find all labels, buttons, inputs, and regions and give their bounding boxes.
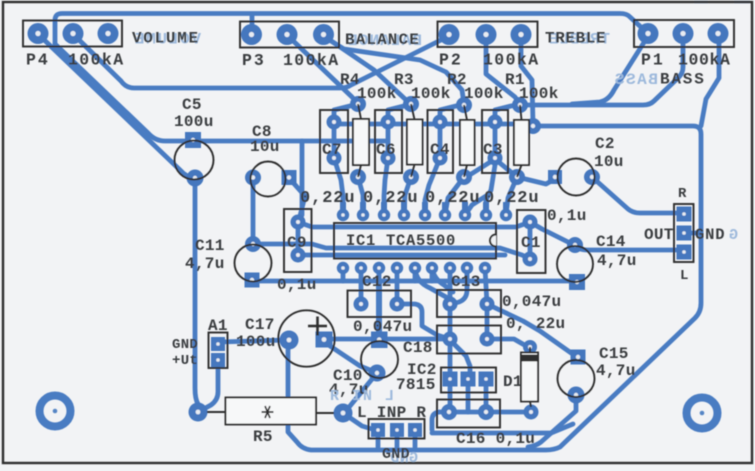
wire C16 right to D1 bottom xyxy=(486,410,531,415)
capacitor C12 pads xyxy=(354,297,405,312)
potentiometer P2 outline xyxy=(438,22,538,48)
wire C12 columns xyxy=(359,268,364,304)
svg-text:C13: C13 xyxy=(451,273,481,291)
connector OUT outline xyxy=(674,204,694,262)
wire maze R2 bottom to IC1 pin xyxy=(445,177,464,215)
resistor top pads R4 R3 R2 R1 xyxy=(350,96,541,134)
wire branch down to C9 top xyxy=(298,141,302,222)
wire C16 left corner down xyxy=(432,412,449,430)
svg-text:BALANCE: BALANCE xyxy=(345,31,420,49)
wire C13-C18 verticals xyxy=(448,304,453,339)
wire C10 pad vertical from C12 xyxy=(376,281,382,338)
capacitor C16 outline xyxy=(437,400,500,428)
capacitor C9 outline xyxy=(284,209,312,272)
svg-text:100k: 100k xyxy=(519,85,559,103)
capacitor C13 outline xyxy=(437,290,501,317)
capacitor C12 outline xyxy=(348,291,412,318)
op-amp IC1 bottom pin pads xyxy=(337,262,491,274)
resistor bottom pads xyxy=(350,169,525,185)
capacitor C9 pads xyxy=(291,215,306,263)
resistor R5 pads xyxy=(189,403,353,423)
wire top-bus leg through P4 down to y141 rail to C9 xyxy=(55,44,386,141)
wire C11 top rail through IC1 to C1 lower pad xyxy=(253,244,530,259)
svg-text:0, 22u: 0, 22u xyxy=(506,315,565,333)
svg-text:C9: C9 xyxy=(287,234,307,252)
wire C15 bottom to bottom rail xyxy=(528,395,576,447)
wire C9 top to C1 top rail xyxy=(298,222,530,227)
svg-text:GND: GND xyxy=(382,446,410,463)
capacitor C15 pads xyxy=(568,350,586,404)
svg-text:0,22u: 0,22u xyxy=(363,189,419,208)
svg-text:C16 0,1u: C16 0,1u xyxy=(456,430,535,448)
svg-text:IC1 TCA5500: IC1 TCA5500 xyxy=(346,232,456,250)
wire maze C3 bottom twin stubs xyxy=(465,196,486,215)
label BASS with mirrored print-through xyxy=(613,71,705,90)
wire branch to P1 pad3 xyxy=(701,35,719,126)
svg-text:100k: 100k xyxy=(464,85,504,103)
capacitor C6 pads xyxy=(381,115,396,166)
capacitor C14 pads xyxy=(567,237,585,290)
resistor R1 body xyxy=(514,105,529,177)
connector A1 outline xyxy=(209,333,228,369)
svg-text:C14: C14 xyxy=(596,233,626,251)
potentiometer P1 pads xyxy=(638,23,729,44)
svg-text:OUT: OUT xyxy=(644,226,674,244)
wire maze stubs below IC1 xyxy=(341,268,346,281)
svg-text:C2: C2 xyxy=(595,135,615,153)
label GND right of OUT with mirror echo xyxy=(695,226,738,244)
wire C16 pad-to-pad xyxy=(449,410,486,415)
svg-text:C5: C5 xyxy=(182,96,202,114)
connector INP outline xyxy=(369,419,425,439)
capacitor C18 outline xyxy=(437,326,501,354)
label TREBLE xyxy=(545,30,610,49)
wire maze cap C6 bottom to IC1 pin xyxy=(384,158,388,215)
svg-text:C15: C15 xyxy=(599,345,629,363)
wire INP stubs xyxy=(395,430,400,448)
capacitor C3 pads xyxy=(488,115,503,166)
wire bus through cap top pads xyxy=(334,122,530,127)
potentiometer P3 outline xyxy=(240,22,339,48)
wire C3 bottom to R2 bottom xyxy=(468,159,495,176)
resistor R3 body xyxy=(407,104,423,177)
wire R5 right pad to INP L xyxy=(343,413,372,429)
svg-text:G: G xyxy=(729,227,738,244)
wire C3 bottom to R1 bottom and C2 minus xyxy=(495,159,553,184)
label GND under INP with mirrored print-through xyxy=(382,446,418,467)
wire C8 left pad to C11 plus pad xyxy=(251,178,256,244)
capacitor C13 pads xyxy=(443,297,495,312)
svg-text:0,1u: 0,1u xyxy=(277,276,317,294)
svg-text:A1: A1 xyxy=(208,317,228,335)
wire C10 bottom diag to R5 right pad xyxy=(343,373,377,413)
capacitor C5 outline xyxy=(175,141,214,180)
wire cap tops to resistor tops xyxy=(334,105,358,122)
wire bottom rail y433 xyxy=(432,424,573,433)
wire C14 top to OUT L xyxy=(575,245,680,250)
capacitor C6 outline xyxy=(375,110,402,173)
wire C8 right pad diagonal to C9 top xyxy=(289,178,305,220)
wire maze diagonals around IC2 xyxy=(452,342,470,374)
svg-text:100kA: 100kA xyxy=(678,51,731,70)
wire maze R1 bottom to IC1 pin xyxy=(506,177,517,215)
resistor R5 body xyxy=(207,398,334,425)
op-amp IC1 body xyxy=(334,223,496,259)
svg-text:100k: 100k xyxy=(411,85,451,103)
svg-text:L: L xyxy=(680,268,689,284)
wire inside C9 vertical xyxy=(296,222,301,255)
mounting hole right xyxy=(687,398,718,429)
svg-text:GND: GND xyxy=(695,226,725,244)
svg-text:10u: 10u xyxy=(594,153,624,171)
svg-text:100kA: 100kA xyxy=(483,51,540,70)
op-amp IC1 top pin pads xyxy=(337,202,512,221)
wire maze R4 bottom to IC1 pin xyxy=(358,177,363,215)
svg-text:GND: GND xyxy=(172,337,198,353)
wire mid rail inside IC1 xyxy=(298,253,505,258)
wire inside C1 vertical xyxy=(528,222,533,259)
wire OUT GND to right rail xyxy=(691,231,701,236)
capacitor C11 outline xyxy=(235,245,272,282)
svg-text:L ИI Я: L ИI Я xyxy=(328,388,394,405)
wire top bus from P4 to P1 xyxy=(55,14,648,45)
svg-text:P2: P2 xyxy=(439,51,463,70)
wire P3 pad2 to R4 top pad xyxy=(287,35,358,104)
wire A1 +Ut down to R5 left pad xyxy=(200,368,218,411)
svg-text:BASS: BASS xyxy=(660,71,706,89)
connector OUT pads xyxy=(677,207,692,260)
svg-text:C18: C18 xyxy=(403,339,433,357)
svg-text:7815: 7815 xyxy=(396,376,436,394)
svg-text:0,22u: 0,22u xyxy=(425,189,481,208)
label VOLUME xyxy=(132,30,201,49)
wire C13 right to C15 top xyxy=(487,304,574,355)
svg-text:C11: C11 xyxy=(195,237,225,255)
svg-text:+Ut: +Ut xyxy=(172,353,198,369)
resistor R2 body xyxy=(460,105,475,177)
capacitor C2 pads xyxy=(548,169,600,185)
capacitor C2 outline xyxy=(558,159,595,196)
wire maze curves into C13 left pad xyxy=(415,268,450,304)
wire in-box verticals C7 C6 C4 C3 xyxy=(332,122,337,158)
wire P4 pad1 diagonal to C5 minus pad and down left rail xyxy=(38,34,198,412)
capacitor C4 pads xyxy=(433,115,448,166)
label BALANCE xyxy=(345,31,422,50)
capacitor C3 outline xyxy=(482,110,508,173)
wire trace A from R1 top pad to P1 pad2 xyxy=(520,35,683,105)
svg-text:100u: 100u xyxy=(236,333,276,351)
capacitor C7 pads xyxy=(327,115,342,166)
capacitor C8 outline xyxy=(251,162,286,197)
capacitor C16 pads xyxy=(441,404,494,420)
capacitor C11 pads xyxy=(245,236,262,288)
capacitor C5 pads xyxy=(185,132,204,187)
wire C18 right to D1 top xyxy=(487,339,528,347)
capacitor C4 outline xyxy=(428,110,454,173)
capacitor C10 bottom pad xyxy=(369,365,386,382)
wire maze cap C4 bottom to IC1 pin xyxy=(425,158,440,215)
svg-text:P4: P4 xyxy=(26,51,50,70)
wire A1 GND to C17 minus xyxy=(220,340,287,342)
regulator IC2 outline xyxy=(441,368,496,393)
svg-text:C3: C3 xyxy=(483,141,503,159)
connector INP pads xyxy=(371,423,422,437)
connector A1 pads xyxy=(211,337,225,367)
wire C17 plus rail right to C18 xyxy=(326,337,448,342)
svg-text:0,1u: 0,1u xyxy=(547,207,587,225)
svg-text:P1: P1 xyxy=(641,51,665,70)
diode D1 pads xyxy=(523,340,539,420)
capacitor C15 outline xyxy=(558,360,595,397)
svg-text:BASS: BASS xyxy=(613,71,658,89)
svg-text:C6: C6 xyxy=(376,141,396,159)
svg-text:D1: D1 xyxy=(503,373,523,391)
potentiometer P2 pads xyxy=(439,24,532,45)
svg-text:C7: C7 xyxy=(322,141,342,159)
svg-text:10u: 10u xyxy=(250,138,280,156)
svg-text:0,22u: 0,22u xyxy=(484,189,540,208)
wire P2 pad3 down to node pad xyxy=(521,35,533,124)
svg-text:C17: C17 xyxy=(245,316,275,334)
svg-text:R5: R5 xyxy=(253,428,273,446)
svg-text:100u: 100u xyxy=(174,113,214,131)
capacitor C7 outline xyxy=(320,110,348,173)
svg-text:R: R xyxy=(678,186,687,202)
svg-text:100k: 100k xyxy=(357,85,397,103)
wire bottom rail C11 minus to C14 minus xyxy=(252,281,577,282)
capacitor C17 pads xyxy=(280,331,333,350)
wire maze cap C7 bottom to IC1 pin xyxy=(334,158,343,215)
svg-text:0,047u: 0,047u xyxy=(353,318,412,336)
svg-text:VOLUME: VOLUME xyxy=(132,30,200,48)
potentiometer P4 pads xyxy=(28,23,119,44)
wire C13 columns xyxy=(448,268,453,304)
svg-text:C12: C12 xyxy=(362,273,392,291)
scan specks top right xyxy=(694,1,750,4)
capacitor C10 plus pad xyxy=(371,332,388,349)
wire C12 right pad to C18 via x422 xyxy=(397,304,450,339)
svg-text:C1: C1 xyxy=(521,234,541,252)
svg-text:P3: P3 xyxy=(242,51,266,70)
wire P2 pad2 to R1 top pad xyxy=(486,35,520,104)
svg-text:TREBLE: TREBLE xyxy=(545,30,606,48)
capacitor C1 pads xyxy=(523,215,538,267)
potentiometer P1 outline xyxy=(634,20,734,47)
capacitor C10 outline xyxy=(361,341,398,378)
diode D1 body xyxy=(521,347,538,407)
capacitor C1 outline xyxy=(517,210,546,273)
wire P3 pad3 diagonal to R3 top pad xyxy=(324,36,411,104)
potentiometer P4 outline xyxy=(23,21,122,47)
mounting hole left xyxy=(40,396,71,427)
svg-text:100kA: 100kA xyxy=(68,51,125,70)
svg-text:0,047u: 0,047u xyxy=(502,293,561,311)
wire trace B node pad right to vertical rail and big bottom diagonal xyxy=(288,126,701,450)
svg-text:0,22u: 0,22u xyxy=(300,189,356,208)
resistor R4 body xyxy=(353,104,369,177)
wire C1 top to C14 top xyxy=(530,222,575,245)
svg-text:4,7u: 4,7u xyxy=(596,362,636,380)
wire C17 plus to C10 bottom xyxy=(330,346,375,372)
svg-text:4,7u: 4,7u xyxy=(185,255,225,273)
potentiometer P3 pads xyxy=(241,24,334,45)
capacitor C18 pads xyxy=(443,332,495,347)
wire maze R3 bottom to IC1 pin xyxy=(404,177,411,215)
capacitor C8 pads xyxy=(245,170,297,186)
wire C18 to IC2 and C16 xyxy=(448,339,453,379)
wire P4 pad2 loop diagonal to y88 bus then up to P2 pad1 xyxy=(73,34,449,88)
svg-text:L INP R: L INP R xyxy=(357,404,426,422)
wire C2 plus to OUT R xyxy=(592,177,680,213)
capacitor C17 outline xyxy=(278,310,334,366)
svg-text:4,7u: 4,7u xyxy=(597,252,637,270)
regulator IC2 pads xyxy=(443,372,494,387)
wire P1 pad1 diagonal under BASS xyxy=(572,36,648,104)
wire P3 pad1 stub from top bus xyxy=(250,15,255,34)
svg-text:C4: C4 xyxy=(430,141,450,159)
capacitor C14 outline xyxy=(557,246,593,282)
wire P3 pad3 shallow diagonal to R2 top xyxy=(326,38,464,104)
svg-text:100kA: 100kA xyxy=(283,51,340,70)
